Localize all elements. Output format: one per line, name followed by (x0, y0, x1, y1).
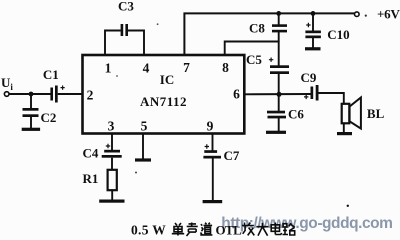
wire pin 3 to C4 (111, 134, 113, 150)
caption char 放 (242, 223, 254, 236)
svg-text:C9: C9 (301, 70, 317, 85)
wire C7 to ground (212, 159, 214, 201)
terminal +6V (355, 12, 360, 17)
svg-text:+6V: +6V (377, 6, 400, 21)
junction dot C10 branch (311, 11, 316, 16)
wire C3 to pin 4 (128, 31, 144, 56)
svg-text:1: 1 (105, 61, 112, 76)
speck marks (365, 15, 367, 17)
capacitor C10 (305, 23, 321, 38)
wire rail to C10 (312, 13, 314, 31)
caption char 声 (187, 223, 198, 237)
svg-text:AN7112: AN7112 (140, 94, 187, 109)
svg-text:2: 2 (87, 88, 94, 103)
wire speaker to ground (343, 123, 345, 132)
capacitor C1 (50, 86, 64, 103)
capacitor C2 (23, 108, 39, 117)
caption char 大 (256, 223, 268, 236)
wire pin 1 to C3 (105, 31, 121, 56)
capacitor C8 (272, 24, 287, 32)
op-amp IC AN7112 body (83, 55, 245, 134)
wire pin 6 to C9 (244, 93, 311, 95)
input terminal Ui (4, 92, 9, 97)
speaker BL (342, 98, 361, 129)
svg-text:C4: C4 (83, 146, 99, 161)
svg-text:8: 8 (222, 60, 229, 75)
ground under C7 (203, 200, 223, 203)
wire input to node A (9, 93, 51, 95)
svg-text:C3: C3 (118, 0, 134, 14)
capacitor C7 (203, 144, 221, 158)
wire pin 5 to ground (142, 134, 144, 159)
caption char 路 (283, 223, 295, 235)
wire C4 to R1 (111, 158, 113, 170)
svg-text:4: 4 (143, 61, 150, 76)
svg-text:5: 5 (141, 119, 148, 134)
wire C9 to speaker (319, 93, 344, 104)
capacitor C4 (102, 144, 122, 158)
resistor R1 (108, 170, 117, 190)
ground under R1 (99, 200, 124, 203)
wire pin 7 to +6V rail (184, 13, 354, 55)
svg-text:IC: IC (160, 72, 174, 87)
svg-text:C5: C5 (246, 52, 262, 67)
wire C10 to ground (312, 37, 314, 48)
wire node B to C5 (278, 42, 280, 68)
svg-text:C2: C2 (41, 110, 57, 125)
svg-text:3: 3 (108, 119, 115, 134)
svg-text:C7: C7 (224, 148, 240, 163)
wire C8 to pin-8 node (278, 32, 280, 42)
ground under C10 (305, 47, 321, 50)
svg-text:C10: C10 (327, 27, 349, 42)
junction node C (277, 92, 282, 97)
capacitor C6 (267, 111, 286, 119)
wire C5 to pin-6 node (278, 74, 280, 94)
svg-text:0.5 W: 0.5 W (131, 223, 166, 238)
wire pin 8 to node B (225, 42, 279, 56)
ground under pin 5 (135, 158, 151, 161)
caption char 电 (271, 223, 281, 235)
wire C1 to pin 2 (58, 93, 83, 95)
svg-text:http://www.go-gddq.com: http://www.go-gddq.com (221, 215, 392, 232)
svg-text:R1: R1 (83, 171, 99, 186)
wire R1 to ground (111, 190, 113, 200)
svg-text:9: 9 (207, 119, 214, 134)
junction node A (29, 92, 34, 97)
capacitor C5 (269, 58, 289, 75)
svg-text:C1: C1 (43, 67, 59, 82)
ground under C6 (266, 131, 286, 134)
wire C2 to ground (30, 117, 32, 128)
junction dot C8 branch (276, 11, 281, 16)
wire node C to C6 (278, 94, 280, 111)
ground under speaker (337, 132, 352, 135)
svg-text:OTL: OTL (216, 223, 243, 238)
wire C6 to ground (278, 118, 280, 131)
wire node A to C2 (30, 94, 32, 110)
capacitor C9 (304, 85, 319, 101)
caption char 道 (200, 223, 212, 235)
svg-text:7: 7 (183, 60, 190, 75)
wire pin 9 to C7 (212, 134, 214, 151)
ground under C2 (22, 128, 40, 131)
capacitor C3 (121, 24, 128, 36)
caption char 单 (172, 223, 184, 236)
svg-text:BL: BL (367, 106, 385, 121)
svg-text:C6: C6 (288, 107, 304, 122)
wire rail to C8 (278, 13, 280, 26)
svg-text:C8: C8 (249, 21, 265, 36)
svg-text:6: 6 (233, 87, 240, 102)
